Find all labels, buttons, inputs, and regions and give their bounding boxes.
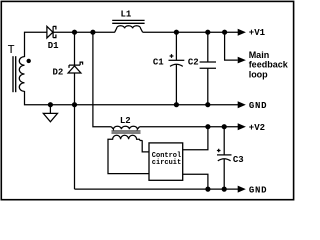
node dot GND rail / ground tap — [48, 102, 53, 107]
capacitor C1 plates — [169, 60, 185, 66]
svg-text:D1: D1 — [48, 41, 59, 51]
svg-text:GND: GND — [249, 101, 267, 111]
control circuit box — [149, 143, 183, 180]
+V1 arrow — [238, 29, 246, 36]
wire D1 cathode to L1 — [53, 31, 115, 33]
wire control box to +V2 rail — [183, 127, 208, 150]
C1 branch wires — [175, 32, 177, 105]
capacitor C2 plates — [200, 62, 216, 68]
feedback arrow — [238, 57, 246, 64]
svg-text:C1: C1 — [153, 57, 164, 67]
capacitor C3 plates — [217, 155, 232, 161]
svg-text:C2: C2 — [188, 57, 199, 67]
L2 core bars — [111, 131, 140, 133]
C2 branch wires — [207, 32, 209, 105]
diode D2 (Schottky) — [68, 62, 83, 73]
svg-text:GND: GND — [249, 185, 267, 195]
wire transformer top to D1 anode — [25, 32, 47, 57]
wire L2 branch vertical and to winding — [93, 32, 111, 127]
inductor L1 core bars — [112, 20, 144, 23]
node dot top rail / C2 — [205, 30, 210, 35]
inductor L1 winding — [115, 26, 143, 33]
svg-text:Main: Main — [249, 50, 270, 60]
svg-text:T: T — [8, 43, 15, 57]
capacitor C1 plus sign — [170, 54, 174, 58]
transformer phase dot — [27, 59, 31, 63]
transformer T winding — [19, 57, 24, 92]
svg-text:+V1: +V1 — [249, 28, 266, 38]
svg-text:feedback: feedback — [249, 60, 289, 70]
wire L2 secondary left end to control box — [108, 140, 149, 174]
node dot GND rail / D2 branch — [72, 102, 77, 107]
wire feedback tap — [225, 32, 238, 60]
wire L2 to +V2 arrow — [140, 126, 239, 128]
node dot top rail / feedback tap — [222, 30, 227, 35]
node dot +V2 rail / C3 — [222, 124, 227, 129]
GND arrow (middle rail) — [238, 101, 246, 108]
wire control box to GND2 rail — [183, 174, 208, 189]
svg-text:circuit: circuit — [152, 159, 181, 167]
C3 branch wires — [223, 127, 225, 189]
wire D2 branch vertical — [74, 32, 76, 189]
wire L1 to +V1 arrow — [143, 31, 238, 33]
border frame — [1, 1, 293, 199]
svg-text:+V2: +V2 — [249, 123, 265, 133]
node dot top rail / C1 — [174, 30, 179, 35]
node dot GND rail / C2 — [205, 102, 210, 107]
node dot top rail / D2 branch — [72, 30, 77, 35]
transformer T core — [13, 56, 16, 92]
GND2 arrow — [238, 186, 246, 193]
svg-text:L2: L2 — [120, 116, 131, 126]
+V2 arrow — [238, 123, 246, 130]
capacitor C3 plus sign — [217, 149, 221, 153]
svg-text:D2: D2 — [53, 67, 64, 77]
node dot GND rail / C1 — [174, 102, 179, 107]
svg-text:C3: C3 — [233, 155, 244, 165]
node dot GND2 rail / C3 — [222, 187, 227, 192]
wire L2 secondary right end to control box — [142, 140, 149, 152]
L2 primary winding — [111, 126, 139, 129]
L2 secondary winding — [108, 135, 142, 140]
svg-text:L1: L1 — [121, 10, 132, 20]
svg-text:loop: loop — [249, 69, 268, 79]
node dot +V2 rail / control — [205, 124, 210, 129]
node dot GND2 rail / control — [205, 187, 210, 192]
diode D1 (Schottky) — [47, 26, 56, 38]
wire transformer bottom to GND rail — [25, 91, 239, 105]
node dot top rail / L2 branch — [90, 30, 95, 35]
ground symbol — [43, 105, 57, 122]
GND2 rail wire — [75, 188, 239, 190]
